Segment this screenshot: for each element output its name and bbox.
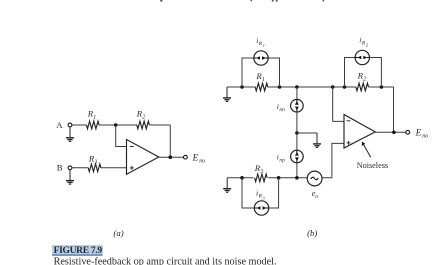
wire i_R1 loop [242, 58, 280, 87]
op-amp U1 [127, 140, 159, 175]
noise current source i_R3 [254, 201, 268, 215]
svg-text:3: 3 [263, 195, 265, 200]
junction i_R3 left [240, 176, 244, 180]
resistor R2 [137, 121, 150, 129]
svg-text:2: 2 [363, 77, 366, 83]
output junction node (b) [392, 131, 396, 135]
wire upper rail middle [268, 86, 356, 88]
svg-text:nn: nn [279, 107, 285, 113]
junction lower node [295, 176, 299, 180]
svg-text:Resistive-feedback op amp circ: Resistive-feedback op amp circuit and it… [54, 257, 277, 265]
figure label highlight [52, 245, 103, 255]
wire i_np branch [296, 133, 298, 150]
junction i_R2 right [380, 85, 384, 89]
ground at A [66, 127, 74, 141]
wire R2 to feedback corner [149, 124, 170, 126]
junction i_R3 right [277, 176, 281, 180]
wire i_R2 loop [345, 58, 382, 88]
svg-text:2: 2 [142, 115, 145, 121]
svg-text:3: 3 [93, 160, 97, 166]
svg-text:3: 3 [259, 169, 263, 175]
noise current source i_R2 [355, 50, 369, 64]
svg-text:2: 2 [366, 43, 368, 48]
svg-text:no: no [199, 159, 205, 165]
junction i_R2 left [343, 85, 347, 89]
wire R1 to summing node [99, 124, 137, 126]
svg-text:(b): (b) [307, 228, 317, 238]
noise voltage source e_n [307, 171, 322, 186]
junction inverting branch [331, 85, 335, 89]
svg-text:np: np [279, 158, 285, 164]
noise current source i_R1 [254, 51, 268, 65]
ground at B [66, 170, 74, 184]
wire right rail down to output [393, 87, 395, 132]
noise current source i_nn [291, 99, 304, 112]
junction node at inverting input [114, 123, 118, 127]
svg-text:(a): (a) [113, 228, 123, 238]
junction i_R1 right [278, 85, 282, 89]
wire A to R1 [72, 124, 87, 126]
wire e_n to noninverting branch [322, 143, 344, 177]
resistor R3 [88, 164, 101, 172]
svg-text:1: 1 [93, 115, 96, 121]
resistor R1 (b) [255, 83, 268, 91]
svg-text:Noiseless: Noiseless [357, 161, 388, 170]
wire mid node to ground [297, 132, 317, 134]
wire R3 to op-amp noninverting input [101, 167, 127, 169]
ground at left end of lower rail [223, 178, 231, 192]
svg-text:no: no [422, 134, 428, 140]
junction i_nn branch [295, 85, 299, 89]
output wire (b) [375, 131, 406, 133]
svg-text:A: A [56, 120, 63, 130]
wire lower rail right [268, 177, 307, 179]
svg-text:n: n [315, 194, 318, 200]
svg-text:1: 1 [263, 43, 265, 48]
wire lower rail left [227, 177, 253, 179]
node B terminal [68, 166, 72, 170]
wire i_nn to mid node [296, 112, 298, 133]
wire B to R3 [72, 167, 88, 169]
wire i_nn branch upper [296, 87, 298, 99]
ground at mid node [313, 133, 321, 147]
junction i_R1 left [240, 85, 244, 89]
feedback wire down to output [169, 125, 171, 157]
node E_no output terminal (b) [406, 130, 410, 134]
svg-text:E: E [192, 153, 199, 163]
wire inverting branch down [333, 87, 344, 121]
wire upper rail right [369, 86, 394, 88]
Noiseless callout arrow [363, 144, 370, 157]
wire i_np to lower node [296, 163, 298, 178]
node E_no output terminal (a) [184, 155, 188, 159]
op-amp U2 noiseless [344, 115, 375, 149]
svg-text:1: 1 [262, 77, 265, 83]
resistor R3 (b) [255, 174, 268, 182]
output wire (a) [159, 156, 184, 158]
ground at left end of upper rail [223, 87, 231, 101]
svg-text:B: B [57, 163, 63, 173]
noise current source i_np [291, 150, 304, 163]
junction mid node [295, 131, 299, 135]
output junction node (a) [169, 155, 173, 159]
wire upper rail left [227, 86, 256, 88]
resistor R1 [86, 121, 99, 129]
wire node down to op-amp inverting input [116, 125, 127, 147]
svg-text:FIGURE 7.9: FIGURE 7.9 [54, 245, 103, 256]
wire i_R3 loop [242, 178, 279, 208]
svg-text:E: E [415, 129, 422, 139]
resistor R2 (b) [356, 83, 369, 91]
node A terminal [68, 123, 72, 127]
page header text fragments (cropped line above) [160, 0, 324, 2]
